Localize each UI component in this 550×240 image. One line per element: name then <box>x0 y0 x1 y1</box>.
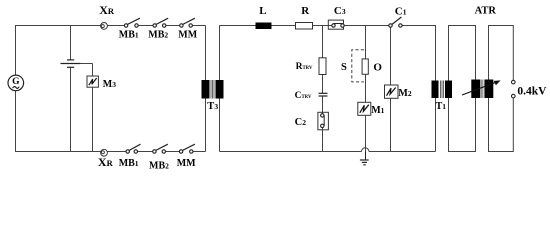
svg-text:XR: XR <box>98 155 114 169</box>
switch MB2 top left contact <box>153 24 156 27</box>
wire breaker branch S O M1 to ground <box>365 26 367 161</box>
switch MB1 bottom left contact <box>126 150 129 153</box>
switch MB2 bottom right contact <box>162 150 165 153</box>
switch C1 left contact <box>389 24 392 27</box>
wire hop over ground branch <box>362 148 369 152</box>
wire left rail top <box>16 26 101 76</box>
switch MB1 bottom right contact <box>134 150 137 153</box>
wire T3 primary rail <box>205 26 207 152</box>
switch MB2 bottom blade <box>156 144 168 150</box>
svg-text:S: S <box>341 62 347 73</box>
ground symbol stem <box>365 152 367 161</box>
wire M3 branch horizontal <box>61 63 93 65</box>
svg-text:RTRV: RTRV <box>296 62 313 72</box>
switch MM bottom left contact <box>179 150 182 153</box>
wire bottom row MM to T3 primary <box>193 151 206 153</box>
autotransformer ATR left winding <box>471 80 480 99</box>
svg-text:M1: M1 <box>371 105 384 116</box>
switch MB1 bottom blade <box>129 144 141 150</box>
capacitor bank lower short plate <box>67 66 74 68</box>
capacitor bank long middle plate <box>61 63 81 65</box>
connector XR top outer circle <box>101 23 108 30</box>
svg-text:C1: C1 <box>395 5 407 17</box>
switch MM top left contact <box>180 24 183 27</box>
wire middle bottom left of ground hop <box>220 151 362 153</box>
wire middle bottom right of ground hop <box>369 151 436 153</box>
svg-text:G: G <box>12 77 20 87</box>
switch MB1 top right contact <box>135 24 138 27</box>
wire TRV branch C2 to bottom <box>322 128 324 152</box>
autotransformer ATR core <box>481 80 484 99</box>
oscillograph M3 zigzag <box>89 78 97 85</box>
transformer T1 left winding <box>432 81 439 99</box>
svg-text:MM: MM <box>178 30 197 41</box>
wire middle top C1 to T1 rail <box>402 26 435 152</box>
autotransformer ATR arrow head <box>494 80 501 85</box>
resistor R <box>296 23 313 30</box>
oscillograph M2 zigzag <box>387 88 396 96</box>
generator G1 tilde <box>13 87 20 89</box>
svg-text:R: R <box>301 5 310 17</box>
wire middle top T3 to L <box>220 25 256 27</box>
connector XR bottom inner curl <box>101 151 104 154</box>
capacitor Ctrv bottom plate <box>319 95 328 97</box>
svg-text:O: O <box>373 61 382 73</box>
oscillograph M1 box <box>358 102 371 115</box>
svg-text:ATR: ATR <box>475 5 497 16</box>
capacitor Ctrv top plate <box>319 92 328 94</box>
svg-text:C2: C2 <box>295 117 307 128</box>
resistor Rtrv <box>319 58 326 75</box>
wire bottom row MB1 to MB2 <box>138 151 153 153</box>
ground symbol bar 3 <box>363 164 365 166</box>
switch MM bottom right contact <box>190 150 193 153</box>
switch C1 blade <box>392 17 402 25</box>
wire top row MM to T3 primary <box>192 25 205 27</box>
switch C1 right contact <box>399 24 402 27</box>
switch MB1 top left contact <box>124 24 127 27</box>
wire top row MB1 to MB2 <box>138 25 153 27</box>
svg-text:L: L <box>259 5 266 17</box>
oscillograph M3 box <box>87 76 98 87</box>
ground symbol bar 2 <box>362 161 367 163</box>
transformer T3 right winding <box>216 80 224 99</box>
svg-text:CTRV: CTRV <box>295 91 312 101</box>
generator G1 circle <box>8 75 24 91</box>
svg-text:XR: XR <box>99 3 115 17</box>
wire middle top C3 to C1 <box>344 25 389 27</box>
transformer T3 left winding <box>202 80 210 99</box>
svg-text:M2: M2 <box>398 88 411 99</box>
switch MB1 top blade <box>127 18 140 24</box>
spark gap C2 box <box>318 112 329 130</box>
wire middle top L to R <box>272 25 296 27</box>
svg-text:MB2: MB2 <box>149 161 169 172</box>
wire left rail bottom <box>16 91 101 152</box>
inductor L <box>256 23 272 30</box>
oscillograph M2 box <box>385 85 399 98</box>
capacitor bank upper short plate <box>67 59 74 61</box>
spark gap C2 bottom electrode <box>321 124 324 127</box>
wire bottom row XR to MB1 <box>107 151 125 153</box>
spark gap C3 left electrode <box>332 24 335 27</box>
spark gap C3 right electrode <box>341 24 344 27</box>
switch MM top right contact <box>189 24 192 27</box>
switch MB2 bottom left contact <box>153 150 156 153</box>
wire middle top R to C3 <box>313 25 332 27</box>
test object O body <box>362 59 368 74</box>
enclosure S dashed box <box>352 50 364 82</box>
spark gap C2 top electrode <box>321 114 324 117</box>
svg-text:T1: T1 <box>436 101 447 112</box>
wire M3 branch vertical <box>92 64 94 152</box>
spark gap C3 box <box>328 20 343 29</box>
wire M2 branch <box>390 28 392 152</box>
svg-text:MB1: MB1 <box>119 30 139 41</box>
svg-text:MM: MM <box>177 158 196 169</box>
wire TRV branch upper <box>322 26 324 94</box>
ground symbol bar 1 <box>360 159 369 161</box>
svg-text:MB2: MB2 <box>148 30 168 41</box>
transformer T1 core <box>441 81 444 99</box>
connector XR bottom outer circle <box>101 149 108 156</box>
wire top row MB2 to MM <box>166 25 180 27</box>
wire capacitor branch lower <box>70 67 72 151</box>
wire capacitor branch upper <box>70 26 72 60</box>
wire TRV branch Ctrv to C2 <box>322 96 324 114</box>
spark gap C2 bridge <box>323 115 325 126</box>
svg-text:0.4kV: 0.4kV <box>517 85 547 97</box>
wire top row XR to MB1 <box>107 25 124 27</box>
svg-text:MB1: MB1 <box>119 158 139 169</box>
switch MM bottom blade <box>182 144 195 150</box>
oscillograph M1 zigzag <box>360 105 369 113</box>
svg-text:T3: T3 <box>207 101 218 112</box>
switch MM top blade <box>183 18 195 24</box>
autotransformer ATR arrow shaft <box>462 82 498 95</box>
transformer T3 core <box>211 80 214 99</box>
svg-text:M3: M3 <box>103 79 116 90</box>
spark gap C3 bridge <box>334 23 343 25</box>
transformer T1 right winding <box>445 81 452 99</box>
terminal 0.4kV upper <box>512 80 516 84</box>
wire loop ATR secondary to 0.4kV rail <box>489 26 514 152</box>
switch MB2 top right contact <box>163 24 166 27</box>
autotransformer ATR right winding <box>485 80 494 99</box>
switch MB2 top blade <box>156 18 168 24</box>
svg-text:C3: C3 <box>334 5 346 17</box>
wire T3 secondary rail <box>219 26 221 152</box>
terminal 0.4kV lower <box>512 94 516 98</box>
wire loop T1 secondary to ATR primary <box>449 26 476 152</box>
wire bottom row MB2 to MM <box>166 151 180 153</box>
connector XR top inner curl <box>101 25 104 28</box>
